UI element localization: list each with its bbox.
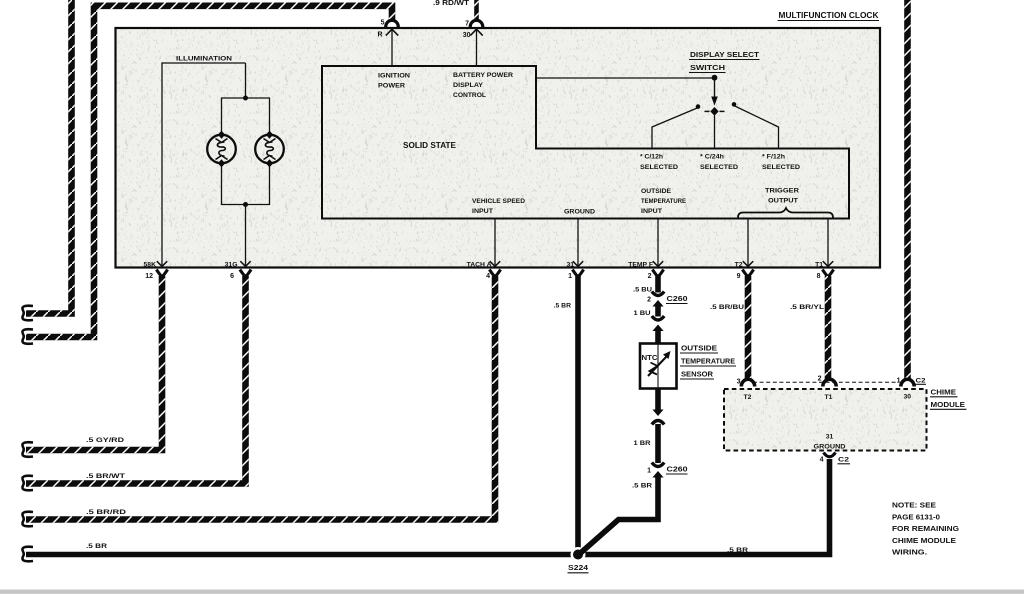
svg-text:T1: T1 — [815, 262, 823, 269]
label SOLID STATE — [403, 140, 456, 150]
illumination feed wires — [162, 62, 246, 266]
svg-text:T2: T2 — [744, 394, 752, 401]
svg-text:.5 BR: .5 BR — [86, 543, 107, 550]
pin label OUTSIDE TEMPERATURE INPUT — [641, 188, 686, 215]
svg-text:.5 BR: .5 BR — [727, 547, 748, 554]
terminal 9 T2 — [735, 262, 754, 281]
label CHIME MODULE — [930, 388, 967, 410]
svg-text:1: 1 — [568, 273, 572, 280]
svg-text:* C/12h: * C/12h — [640, 154, 663, 161]
svg-text:TEMPERATURE: TEMPERATURE — [641, 198, 686, 205]
svg-text:2: 2 — [648, 273, 652, 280]
svg-text:6: 6 — [230, 273, 234, 280]
svg-text:POWER: POWER — [378, 83, 405, 90]
sensor B1 NTC outside temperature — [640, 344, 677, 389]
svg-text:VEHICLE SPEED: VEHICLE SPEED — [472, 198, 525, 205]
svg-text:T2: T2 — [735, 262, 743, 269]
svg-text:DISPLAY: DISPLAY — [453, 82, 483, 89]
wire battery power to pin 30 — [470, 29, 482, 66]
svg-text:OUTPUT: OUTPUT — [768, 198, 799, 205]
svg-text:12: 12 — [145, 273, 153, 280]
label OUTSIDE TEMPERATURE SENSOR — [680, 344, 736, 380]
switch contact C/12h — [652, 104, 700, 148]
svg-text:1: 1 — [647, 468, 651, 475]
svg-text:S224: S224 — [568, 565, 588, 572]
terminal 6 31G — [225, 262, 251, 281]
switch contact F/12h — [732, 102, 779, 148]
label 31 GROUND — [814, 434, 846, 451]
trigger output brace — [738, 208, 833, 218]
terminal 12 58K — [144, 262, 168, 281]
svg-text:SENSOR: SENSOR — [681, 370, 714, 379]
wire chime module 30 feed — [904, 0, 911, 380]
svg-text:SWITCH: SWITCH — [690, 63, 725, 72]
svg-text:SELECTED: SELECTED — [640, 164, 678, 171]
pin label GROUND — [564, 209, 595, 216]
wire temperature input to pin TEMP F — [653, 219, 663, 267]
svg-text:.5 BR: .5 BR — [632, 483, 652, 490]
svg-text:.5 GY/RD: .5 GY/RD — [86, 437, 124, 444]
svg-text:2: 2 — [647, 297, 651, 304]
svg-text:TEMP F: TEMP F — [628, 262, 653, 269]
svg-text:TEMPERATURE: TEMPERATURE — [681, 357, 735, 366]
svg-text:INPUT: INPUT — [472, 208, 494, 215]
wire .9 RD/WT battery feed — [433, 0, 477, 21]
wire .5 BR/RD tach — [22, 276, 495, 526]
chime terminal 4 C2 ground — [820, 453, 850, 464]
svg-text:7: 7 — [465, 21, 469, 28]
pin label BATTERY POWER DISPLAY CONTROL — [453, 72, 513, 99]
wire 1 BU — [634, 305, 659, 317]
wire below sensor — [655, 389, 661, 411]
svg-text:.5 BR/WT: .5 BR/WT — [86, 473, 126, 480]
connector C260 pin 1 — [647, 463, 688, 478]
label DISPLAY SELECT SWITCH — [689, 50, 760, 73]
note text — [892, 501, 959, 557]
wire .5 BR/BU trigger T2 — [710, 276, 748, 380]
svg-text:NTC: NTC — [642, 355, 658, 362]
svg-text:TACH A: TACH A — [467, 262, 492, 269]
chime terminal 3 T2 — [737, 379, 755, 402]
svg-text:GROUND: GROUND — [814, 444, 846, 451]
terminal 1 31 — [566, 262, 583, 281]
connector sensor top — [652, 316, 664, 331]
pin label VEHICLE SPEED INPUT — [472, 198, 525, 215]
wire .5 BR clock ground drop — [554, 276, 578, 555]
svg-text:31G: 31G — [225, 262, 238, 269]
wire illumination pin 6 arrow — [240, 261, 250, 266]
wire ignition feed to terminal 5 — [22, 6, 392, 344]
svg-text:8: 8 — [817, 273, 821, 280]
svg-text:CHIME: CHIME — [931, 388, 957, 397]
svg-text:ILLUMINATION: ILLUMINATION — [176, 56, 232, 63]
label C/24h SELECTED — [700, 154, 738, 172]
svg-text:R: R — [377, 32, 382, 39]
svg-text:C260: C260 — [667, 296, 688, 303]
svg-text:2: 2 — [818, 376, 822, 383]
svg-text:IGNITION: IGNITION — [378, 73, 410, 80]
wire vehicle speed to pin A — [490, 219, 500, 267]
connector sensor bottom — [652, 410, 664, 425]
svg-text:CHIME MODULE: CHIME MODULE — [892, 536, 956, 545]
svg-text:C2: C2 — [838, 457, 849, 464]
svg-text:C2: C2 — [916, 377, 926, 384]
svg-text:* C/24h: * C/24h — [700, 154, 724, 161]
wire trigger T2 — [743, 219, 753, 267]
svg-text:4: 4 — [820, 457, 824, 464]
label F/12h SELECTED — [762, 154, 800, 172]
multifunction clock housing box — [116, 28, 881, 268]
wire ground to pin 31 — [573, 219, 583, 267]
chime terminal 2 T1 — [818, 376, 837, 402]
lamp E1 illumination bulb left — [207, 131, 236, 168]
terminal 4 TACH A — [467, 262, 501, 281]
pin label TRIGGER OUTPUT — [765, 188, 799, 205]
svg-text:1: 1 — [897, 378, 901, 385]
lamp branch rails — [222, 98, 270, 206]
pin label IGNITION POWER — [378, 73, 410, 90]
svg-text:BATTERY POWER: BATTERY POWER — [453, 72, 513, 79]
svg-text:.5 BR/YL: .5 BR/YL — [790, 304, 824, 311]
svg-text:3: 3 — [737, 379, 741, 386]
wire illumination pin 12 arrow — [157, 261, 167, 266]
svg-text:30: 30 — [904, 394, 912, 401]
terminal 7 30 — [463, 20, 483, 39]
wire switch feed from solid state — [536, 77, 713, 79]
terminal 2 TEMP F — [628, 262, 663, 281]
svg-text:.5 BR/RD: .5 BR/RD — [86, 509, 126, 516]
svg-text:31: 31 — [826, 434, 834, 441]
svg-text:5: 5 — [381, 20, 385, 27]
node lamp top junction — [243, 96, 248, 101]
svg-text:CONTROL: CONTROL — [453, 92, 486, 99]
svg-text:4: 4 — [486, 273, 490, 280]
node lamp bottom junction — [243, 202, 248, 267]
svg-text:OUTSIDE: OUTSIDE — [641, 188, 671, 195]
wire ignition power to pin R — [386, 29, 398, 66]
page edge band — [0, 590, 1024, 594]
svg-text:INPUT: INPUT — [641, 208, 663, 215]
svg-text:SELECTED: SELECTED — [700, 164, 738, 171]
label C/12h SELECTED — [640, 154, 678, 172]
chime terminal 1 30 C2 — [897, 377, 926, 400]
svg-text:MODULE: MODULE — [931, 400, 966, 409]
svg-text:PAGE 6131-0: PAGE 6131-0 — [892, 512, 940, 521]
wire .5 GY/RD illumination — [22, 276, 162, 457]
svg-text:NOTE: SEE: NOTE: SEE — [892, 501, 936, 510]
svg-text:.5 BR: .5 BR — [554, 303, 571, 310]
svg-text:30: 30 — [463, 32, 471, 39]
svg-text:1 BR: 1 BR — [634, 440, 651, 447]
svg-text:* F/12h: * F/12h — [762, 154, 785, 161]
svg-text:.5 BR/BU: .5 BR/BU — [710, 304, 744, 311]
svg-text:31: 31 — [566, 262, 574, 269]
chime module box — [724, 382, 927, 450]
label ILLUMINATION — [176, 56, 232, 63]
wire .5 BU temp — [633, 276, 658, 294]
svg-text:T1: T1 — [825, 394, 833, 401]
wire .5 BR/WT — [22, 276, 245, 490]
svg-text:1 BU: 1 BU — [634, 310, 651, 317]
svg-text:FOR REMAINING: FOR REMAINING — [892, 524, 959, 533]
wire .5 BR ground bus — [22, 459, 829, 561]
terminal 5 R — [377, 20, 398, 39]
solid state module U1 outline — [322, 66, 849, 219]
switch S1 common node — [712, 75, 718, 81]
svg-text:9: 9 — [737, 273, 741, 280]
svg-text:SOLID STATE: SOLID STATE — [403, 140, 456, 150]
switch S1 actuator arrow — [711, 80, 718, 106]
svg-text:OUTSIDE: OUTSIDE — [681, 344, 717, 353]
wire trigger T1 — [823, 219, 833, 267]
connector C260 pin 2 — [647, 292, 688, 307]
svg-text:TRIGGER: TRIGGER — [765, 188, 799, 195]
svg-text:GROUND: GROUND — [564, 209, 595, 216]
switch S1 wiper — [705, 107, 725, 116]
switch contact C/24h wire — [714, 116, 716, 149]
svg-text:DISPLAY SELECT: DISPLAY SELECT — [690, 50, 760, 59]
svg-text:WIRING.: WIRING. — [892, 548, 927, 557]
lamp E2 illumination bulb right — [255, 131, 284, 168]
wire .5 BR sensor return — [581, 476, 659, 553]
wire hot feed vertical left — [22, 0, 71, 320]
svg-text:C260: C260 — [667, 467, 688, 474]
svg-text:MULTIFUNCTION CLOCK: MULTIFUNCTION CLOCK — [779, 11, 879, 20]
wire to sensor — [655, 330, 661, 344]
wire .5 BR/YL trigger T1 — [790, 276, 828, 380]
svg-text:.5 BU: .5 BU — [633, 287, 652, 294]
svg-text:58K: 58K — [144, 262, 157, 269]
label MULTIFUNCTION CLOCK — [778, 11, 880, 21]
svg-text:.9 RD/WT: .9 RD/WT — [433, 0, 470, 7]
terminal 8 T1 — [815, 262, 834, 281]
splice S224 — [568, 547, 589, 573]
svg-text:SELECTED: SELECTED — [762, 164, 800, 171]
wire 1 BR — [634, 424, 659, 463]
